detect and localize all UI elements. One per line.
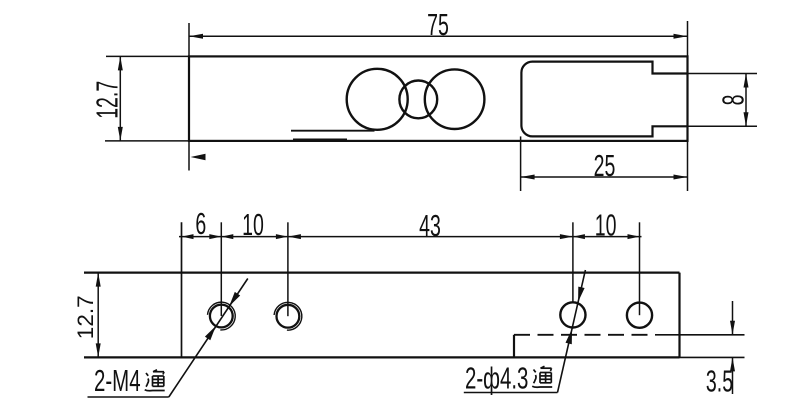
leader 2-M4 arrow lower (points up-right at hole) — [205, 326, 216, 340]
svg-text:2-M4: 2-M4 — [94, 363, 141, 398]
dim 10 arrow right — [276, 234, 288, 239]
dim 3.5 arrow down — [730, 321, 735, 335]
strain hole circle left — [347, 69, 408, 130]
dim 12.7b arrow top — [96, 273, 101, 287]
flexure gap line upper — [291, 130, 375, 132]
stray arrow at lower left of beam — [191, 154, 206, 160]
extension line to M4 hole 1 — [220, 222, 222, 316]
label glyph tong (phi4.3) — [534, 370, 536, 373]
flexure gap line lower — [293, 138, 347, 140]
bottom view right edge — [678, 273, 680, 358]
step vertical edge — [513, 335, 515, 358]
leader line 2-phi4.3 — [558, 270, 586, 393]
dim 12.7b dimension line — [97, 273, 99, 358]
svg-text:43: 43 — [419, 210, 441, 244]
dim 75 arrow right — [674, 34, 688, 39]
label underline 2-phi4.3 — [464, 392, 558, 394]
svg-text:12.7: 12.7 — [73, 295, 98, 339]
dim 12.7 dimension line — [119, 56, 121, 140]
dim 43 arrow right — [560, 234, 573, 239]
svg-text:25: 25 — [594, 149, 616, 183]
dim 8 arrow top — [744, 74, 749, 88]
pocket slot outline — [521, 62, 687, 137]
dim 8 arrow bottom — [744, 112, 749, 126]
svg-text:8: 8 — [717, 94, 751, 105]
strain hole circle middle — [399, 81, 437, 119]
dim 3.5 dimension line lower — [732, 357, 734, 394]
bottom view bottom edge — [84, 356, 680, 358]
tapped hole M4 #1 inner circle — [210, 305, 233, 328]
svg-text:75: 75 — [427, 9, 449, 43]
hidden step dashed line — [514, 334, 655, 336]
leader 2-phi4.3 arrow lower — [566, 329, 573, 344]
leader 2-M4 arrow upper (points down-left at hole) — [229, 292, 240, 306]
dim 12.7 arrow top — [118, 56, 123, 70]
bottom dims dimension line — [179, 236, 642, 238]
beam outline (side view) — [189, 56, 688, 140]
dim 75 arrow left — [189, 34, 203, 39]
dim 12.7 arrow bottom — [118, 127, 123, 141]
dim 3.5 extension upper (solid continuation) — [655, 334, 745, 336]
dim 10b arrow left — [573, 234, 585, 239]
tapped hole M4 #1 thread arc — [208, 302, 236, 330]
dim 25 dimension line — [521, 176, 688, 178]
leader line 2-M4 — [169, 279, 248, 398]
dim 25 extension left — [520, 136, 522, 191]
dim 25 arrow right — [674, 175, 688, 180]
extension line to hole 4.3 #1 — [572, 222, 574, 301]
inner vertical edge (datum) — [181, 222, 183, 357]
dim 3.5 arrow up — [730, 357, 735, 371]
tapped hole M4 #2 inner circle — [277, 305, 300, 328]
svg-text:6: 6 — [195, 208, 206, 242]
svg-text:3.5: 3.5 — [706, 365, 733, 399]
label underline 2-M4 — [88, 396, 169, 398]
extension line to M4 hole 2 — [287, 222, 289, 316]
svg-text:10: 10 — [242, 209, 264, 243]
through hole 4.3 #2 — [627, 303, 652, 328]
svg-text:12.7: 12.7 — [91, 81, 125, 119]
dim 75 extension line left — [188, 23, 190, 171]
dim 25 arrow left — [521, 175, 535, 180]
svg-text:10: 10 — [595, 209, 617, 243]
dim 12.7 extension top — [106, 55, 189, 57]
dim 8 extension top — [688, 73, 758, 75]
tapped hole M4 #2 thread arc — [274, 302, 302, 330]
leader 2-phi4.3 arrow upper — [578, 287, 585, 302]
dim 6 arrow left — [182, 234, 194, 239]
dim 10b arrow right — [628, 234, 640, 239]
dim 8 dimension line — [745, 74, 747, 127]
dim 6 arrow right — [209, 234, 221, 239]
extension line to hole 4.3 #2 — [639, 222, 641, 315]
dim 12.7b arrow bottom — [96, 343, 101, 357]
dim 75 extension line right — [687, 21, 689, 191]
through hole 4.3 #1 — [560, 302, 585, 327]
dim 8 extension bottom — [688, 125, 758, 127]
dim 12.7 extension bottom — [105, 140, 189, 142]
dim 43 arrow left — [288, 234, 301, 239]
dim 10 arrow left — [221, 234, 233, 239]
svg-text:2-ф4.3: 2-ф4.3 — [465, 360, 528, 395]
label glyph tong (M4) — [146, 373, 148, 376]
dim 3.5 extension lower — [680, 356, 745, 358]
bottom view top edge — [84, 272, 680, 274]
dim 3.5 dimension line upper — [732, 301, 734, 335]
dim 75 dimension line — [189, 35, 688, 37]
strain hole circle right — [425, 69, 485, 129]
